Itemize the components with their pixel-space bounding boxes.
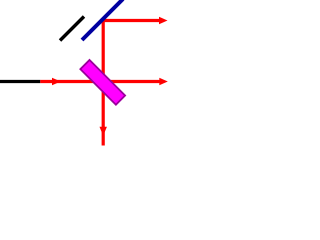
wire: vertical beam (mirror corner down through splitter) (102, 19, 105, 146)
wire: incident beam dark segment (left edge) (0, 80, 40, 83)
black diagonal segment (upper left of mirror) (60, 17, 84, 41)
wire: incident/transmitted red beam (left to right through splitter) (40, 80, 161, 83)
mirror M1 (blue diagonal) (82, 0, 123, 40)
arrowhead: incident beam mid arrow (52, 78, 61, 85)
arrowhead: top beam end arrow (159, 17, 168, 24)
arrowhead: downward beam mid arrow (100, 127, 107, 136)
arrowhead: transmitted beam end arrow (159, 78, 168, 85)
beam splitter BS (magenta plate) (80, 60, 125, 105)
wire: top output beam (mirror to right) (102, 19, 161, 22)
